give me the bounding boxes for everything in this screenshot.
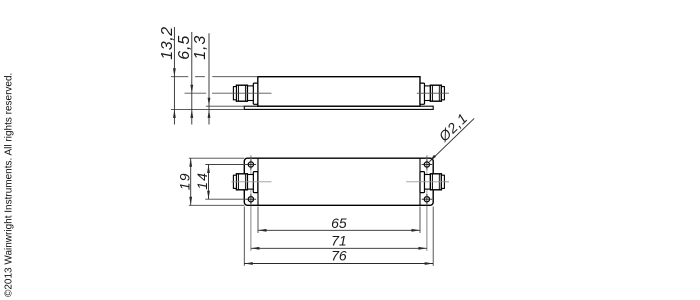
hole centerlines over plate — [251, 158, 427, 205]
svg-text:65: 65 — [331, 215, 347, 231]
connector J1 (plan view left) — [233, 172, 257, 193]
svg-text:1,3: 1,3 — [192, 35, 209, 60]
connector J2 (side view right) — [420, 83, 444, 104]
svg-text:14: 14 — [194, 172, 210, 190]
hole centerlines vertical — [251, 155, 427, 251]
svg-text:13,2: 13,2 — [159, 26, 176, 60]
side view centerline — [185, 92, 450, 94]
dimension 71 — [251, 247, 427, 250]
connector J2 (plan view right) — [420, 172, 444, 193]
plan base plate outline — [244, 158, 433, 205]
leader line for hole diameter — [429, 118, 474, 161]
bottom extension lines — [244, 207, 433, 266]
extension lines for height dims — [171, 77, 258, 110]
cover end line right — [419, 158, 421, 205]
side view base plate — [244, 106, 433, 109]
plan centerline horizontal — [232, 181, 450, 183]
svg-text:©2013 Wainwright Instruments.: ©2013 Wainwright Instruments. All rights… — [4, 73, 15, 297]
mounting hole top-right — [422, 159, 432, 169]
dimension 1,3 — [208, 33, 211, 124]
mounting hole bottom-left — [246, 194, 256, 204]
plan centerlines redrawn over connectors — [232, 181, 450, 183]
svg-text:6,5: 6,5 — [176, 35, 193, 60]
dimension 6,5 — [190, 32, 193, 125]
dimension 65 — [258, 229, 420, 232]
cover end line left — [257, 158, 259, 205]
dimension 13,2 — [173, 27, 176, 125]
dimension 14 — [207, 165, 210, 200]
mounting hole top-left — [246, 159, 256, 169]
plan extension lines left — [189, 158, 246, 205]
svg-text:19: 19 — [176, 172, 192, 190]
connector J1 (side view left) — [233, 83, 257, 104]
dimension 76 — [244, 262, 433, 265]
dimension 19 — [189, 158, 192, 205]
mounting hole bottom-right — [422, 194, 432, 204]
svg-text:76: 76 — [331, 248, 347, 264]
side view cover body — [258, 77, 420, 107]
svg-text:71: 71 — [331, 233, 347, 249]
